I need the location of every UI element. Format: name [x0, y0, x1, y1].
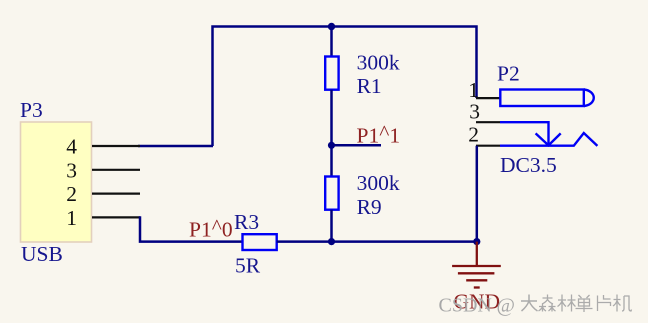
pin 3 of P2: [476, 121, 500, 123]
pin 2 of P2: [476, 145, 500, 147]
svg-text:2: 2: [468, 123, 479, 147]
resistor R1 bottom lead: [330, 90, 333, 146]
svg-text:R3: R3: [234, 210, 259, 234]
ground symbol GND: [452, 242, 501, 288]
net label stub P1^1: [332, 144, 382, 147]
resistor R9 body: [325, 177, 338, 210]
connector P3 body: [21, 122, 92, 242]
svg-text:3: 3: [469, 100, 480, 124]
svg-text:USB: USB: [21, 242, 63, 266]
switch lever from pin 2 with bump: [500, 133, 597, 146]
pin 3 of P3: [92, 169, 140, 171]
watermark hanzi lin: [558, 295, 576, 312]
svg-text:1: 1: [468, 78, 479, 102]
svg-text:R1: R1: [357, 74, 382, 98]
pin 1 of P2: [476, 97, 500, 99]
resistor R1 body: [325, 57, 338, 90]
wire pin4 to corner: [138, 145, 213, 148]
resistor R9 bottom lead: [330, 210, 333, 242]
wire P2 pin 2 down to ground junction: [476, 146, 479, 242]
svg-text:5R: 5R: [235, 254, 261, 278]
svg-text:2: 2: [66, 182, 77, 206]
svg-text:R9: R9: [357, 195, 382, 219]
resistor R3 body: [243, 234, 277, 250]
pin 2 of P3: [92, 193, 140, 195]
svg-text:300k: 300k: [357, 51, 400, 75]
resistor R9 top lead: [330, 145, 333, 176]
pin 1 of P3: [92, 216, 140, 218]
svg-text:P1^1: P1^1: [357, 121, 401, 148]
switch contact from pin 3 with arrow: [500, 122, 549, 145]
wire top rail: [213, 27, 477, 147]
wire R3 to junction to ground junction (bottom rail): [277, 240, 477, 243]
svg-text:1: 1: [66, 206, 77, 230]
svg-text:P2: P2: [497, 62, 520, 86]
watermark hanzi ji: [613, 295, 632, 312]
svg-text:P1^0: P1^0: [189, 215, 233, 242]
junction bottom rail / ground: [473, 238, 480, 245]
svg-text:4: 4: [66, 135, 77, 159]
watermark hanzi da: [521, 295, 538, 312]
pin 4 of P3: [92, 145, 140, 147]
connector P2 barrel cap: [584, 90, 594, 107]
junction R1 / R9 / net stub: [328, 142, 335, 149]
svg-text:@: @: [497, 295, 515, 317]
wire pin1 down to bottom rail: [140, 216, 243, 241]
junction top rail / R1: [328, 23, 335, 30]
switch arrowhead: [536, 133, 561, 145]
svg-text:P3: P3: [20, 98, 43, 122]
svg-text:CSDN: CSDN: [439, 295, 492, 317]
connector P2 barrel: [500, 90, 584, 107]
svg-text:DC3.5: DC3.5: [500, 153, 557, 177]
watermark hanzi sen: [539, 295, 556, 312]
watermark hanzi dan: [576, 295, 593, 312]
watermark hanzi pian: [598, 295, 611, 311]
resistor R1 top lead: [330, 27, 333, 57]
junction R9 / bottom rail: [328, 238, 335, 245]
svg-text:3: 3: [66, 158, 77, 182]
svg-text:300k: 300k: [357, 171, 400, 195]
